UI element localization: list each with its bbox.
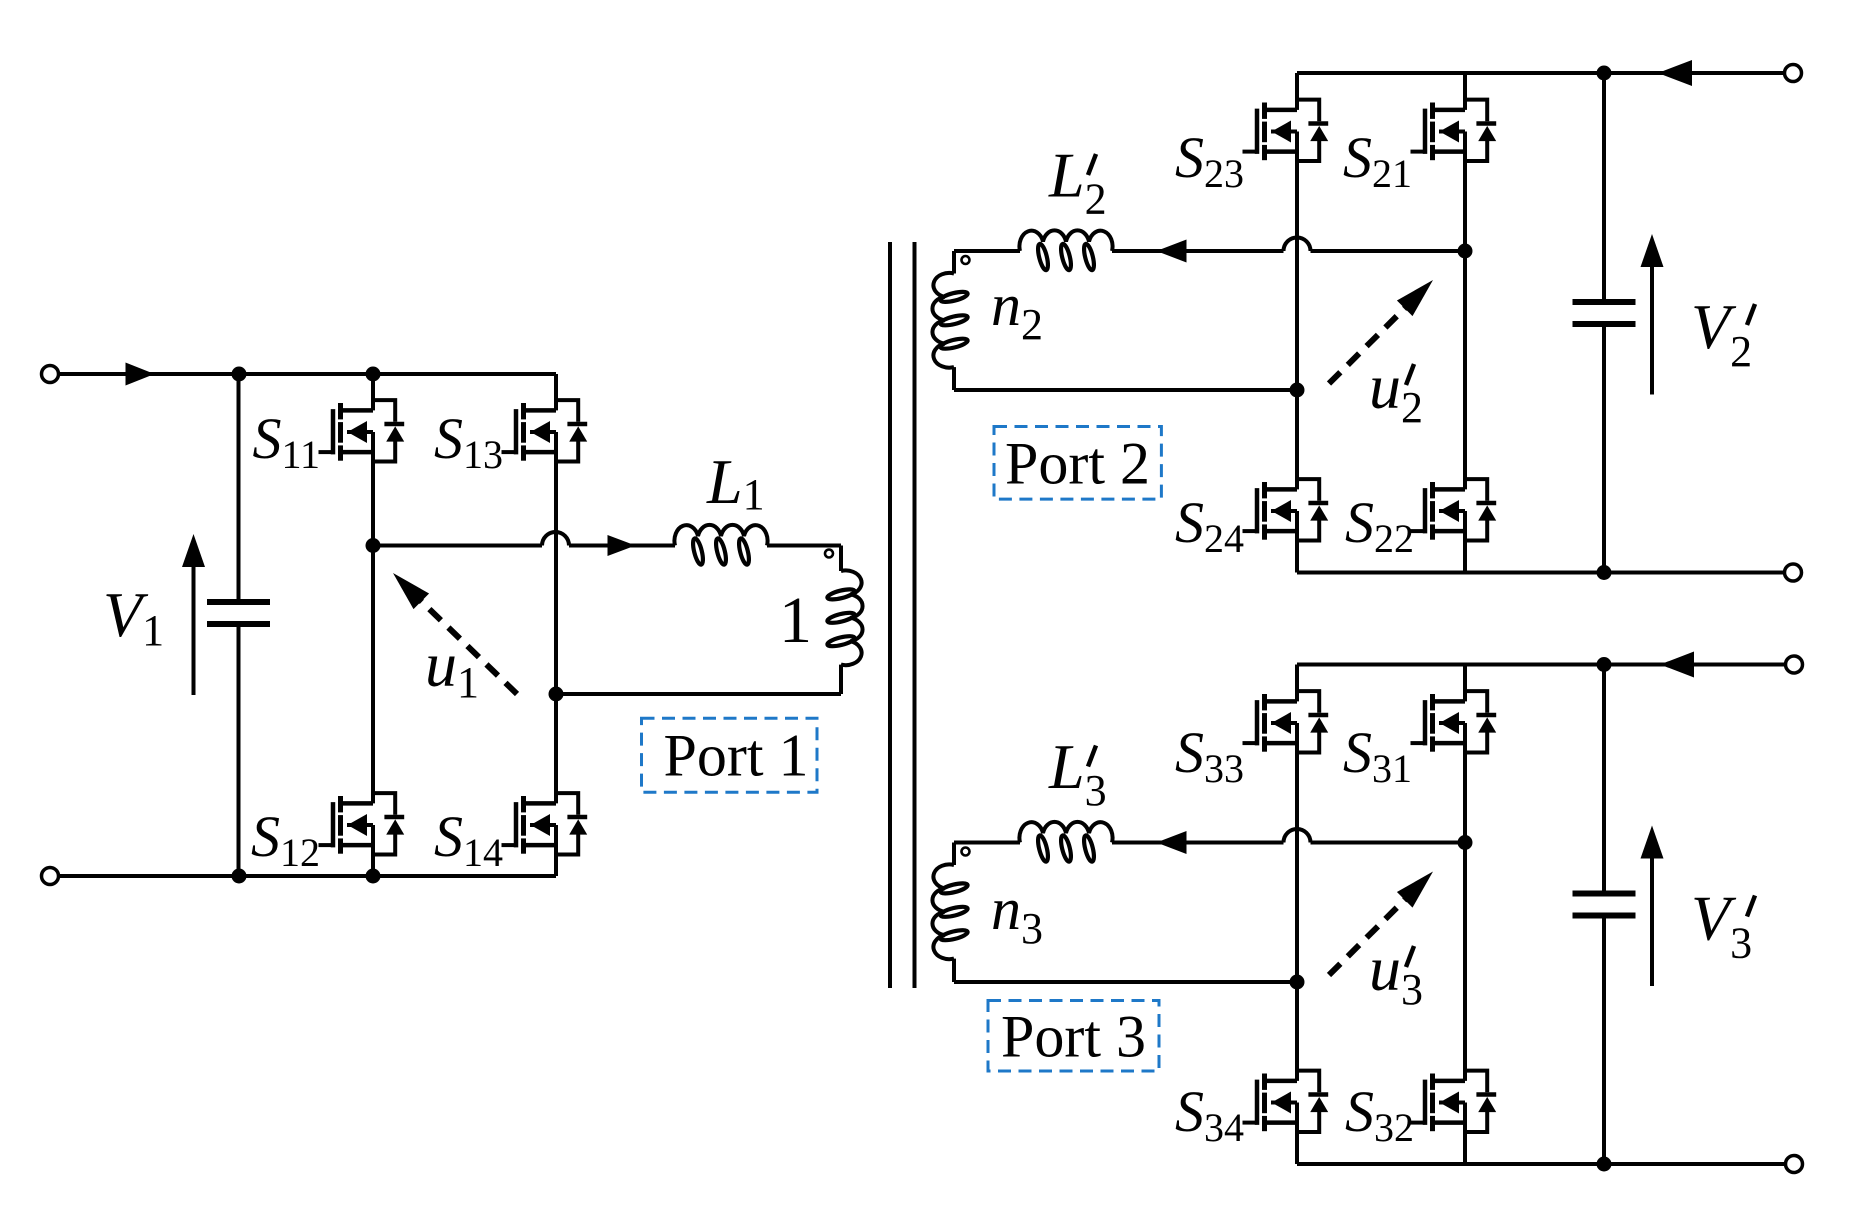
node: bottom rail / left leg junction <box>366 869 381 884</box>
label S34 <box>1175 1079 1244 1150</box>
transformer core <box>890 242 915 988</box>
inductor L2' <box>1019 230 1112 271</box>
label S24 <box>1175 490 1244 561</box>
wire: Port 2 bottom rail <box>1297 571 1785 575</box>
node: top rail / C3 junction <box>1597 657 1612 672</box>
wire: n2 bottom lead to bridge left leg <box>954 388 1297 392</box>
wire: Port 1 top input <box>59 372 240 376</box>
node: top rail / capacitor junction <box>232 367 247 382</box>
capacitor C1 (input cap of Port 1) <box>207 374 270 876</box>
transistor S13 (N-MOSFET with body diode) <box>502 400 588 461</box>
wire: n2 top lead to bridge (Port 2), with hop over left leg <box>954 238 1465 252</box>
wire: L1 to transformer primary <box>767 544 841 548</box>
dashed box: Port 1 <box>642 718 818 792</box>
wire: Port 1 left bridge leg <box>371 374 375 876</box>
label S32 <box>1345 1079 1414 1150</box>
arrow: input current direction <box>126 363 155 386</box>
transistor S12 (N-MOSFET with body diode) <box>319 793 405 854</box>
inductor L1 <box>674 525 767 566</box>
label L2' <box>1048 140 1107 224</box>
transistor S21 (N-MOSFET with body diode) <box>1411 100 1497 161</box>
wire: bridge mid to L1 (with hop over right leg) <box>373 532 675 546</box>
terminal: Port 3 positive <box>1786 656 1803 673</box>
dashed box: Port 2 <box>994 427 1161 500</box>
label S14 <box>434 804 503 875</box>
arrow: V2' polarity (up) <box>1641 234 1664 395</box>
label u2' <box>1369 351 1423 432</box>
node: top rail / left leg junction <box>366 367 381 382</box>
label u1 <box>425 629 479 707</box>
transistor S34 (N-MOSFET with body diode) <box>1243 1071 1329 1132</box>
capacitor C2 (output cap of Port 2) <box>1573 73 1636 573</box>
wire: Port 1 top rail <box>239 372 556 376</box>
node: Port 3 bridge midpoint (left leg) <box>1290 975 1305 990</box>
wire: Port 1 right bridge leg <box>554 374 558 876</box>
wire: n3 top lead to bridge (Port 3), with hop over left leg <box>954 829 1465 843</box>
polarity dot: primary <box>825 550 833 558</box>
node: Port 2 bridge midpoint (right leg) <box>1458 244 1473 259</box>
transistor S22 (N-MOSFET with body diode) <box>1411 479 1497 540</box>
polarity dot: n2 <box>962 256 970 264</box>
wire: Port 3 right bridge leg <box>1463 665 1467 1165</box>
transistor S31 (N-MOSFET with body diode) <box>1411 691 1497 752</box>
arrow: Port 2 input current (top rail) <box>1658 60 1692 86</box>
svg-text:Port 1: Port 1 <box>663 723 808 789</box>
transformer secondary winding n2 <box>932 251 968 390</box>
label V1 <box>103 579 164 655</box>
node: Port 1 bridge midpoint A <box>366 538 381 553</box>
label V2' <box>1691 291 1755 376</box>
wire: Port 3 top rail <box>1297 663 1786 667</box>
label S12 <box>251 804 320 875</box>
inductor L3' <box>1019 822 1112 863</box>
wire: bridge mid B to transformer primary bottom <box>556 692 841 696</box>
node: bottom rail / capacitor junction <box>232 869 247 884</box>
transistor S23 (N-MOSFET with body diode) <box>1243 100 1329 161</box>
transistor S11 (N-MOSFET with body diode) <box>319 400 405 461</box>
arrow: Port 2 current direction <box>1157 240 1187 263</box>
wire: Port 2 right bridge leg <box>1463 73 1467 573</box>
terminal: Port 2 positive <box>1785 65 1802 82</box>
terminal: Port 2 negative <box>1785 564 1802 581</box>
label L1 <box>706 446 765 519</box>
transformer secondary winding n3 <box>932 843 968 983</box>
node: Port 1 bridge midpoint B <box>549 687 564 702</box>
label S23 <box>1175 125 1244 196</box>
dashed box: Port 3 <box>988 1001 1159 1072</box>
terminal: Port 1 positive input <box>42 366 59 383</box>
arrow: V3' polarity (up) <box>1641 826 1664 987</box>
svg-text:Port 3: Port 3 <box>1001 1004 1146 1070</box>
label L3' <box>1048 731 1107 815</box>
transistor S14 (N-MOSFET with body diode) <box>502 793 588 854</box>
arrow: Port 3 input current (top rail) <box>1660 652 1694 678</box>
polarity dot: n3 <box>962 848 970 856</box>
node: bottom rail / C2 junction <box>1597 565 1612 580</box>
svg-text:Port 2: Port 2 <box>1005 431 1150 497</box>
arrow: V1 polarity (up) <box>182 534 205 695</box>
transistor S33 (N-MOSFET with body diode) <box>1243 691 1329 752</box>
arrow: Port 3 current direction <box>1157 831 1187 854</box>
arrow: Port 1 current direction into L1 <box>608 535 636 556</box>
label S22 <box>1345 490 1414 561</box>
u1 dashed arrow (bridge output voltage) <box>393 573 517 694</box>
wire: n3 bottom lead to bridge left leg <box>954 980 1297 984</box>
transistor S24 (N-MOSFET with body diode) <box>1243 479 1329 540</box>
node: Port 3 bridge midpoint (right leg) <box>1458 835 1473 850</box>
terminal: Port 1 negative input <box>42 868 59 885</box>
transistor S32 (N-MOSFET with body diode) <box>1411 1071 1497 1132</box>
node: top rail / C2 junction <box>1597 66 1612 81</box>
label n2 <box>991 272 1043 349</box>
label S31 <box>1343 720 1412 791</box>
terminal: Port 3 negative <box>1786 1156 1803 1173</box>
wire: Port 3 bottom rail <box>1297 1162 1786 1166</box>
node: bottom rail / C3 junction <box>1597 1157 1612 1172</box>
transformer primary winding (1) <box>826 546 862 695</box>
wire: Port 1 bottom rail <box>59 874 557 878</box>
u3' dashed arrow <box>1329 872 1433 976</box>
node: Port 2 bridge midpoint (left leg) <box>1290 383 1305 398</box>
label S11 <box>252 406 320 477</box>
svg-text:1: 1 <box>779 584 812 657</box>
label u3' <box>1369 933 1423 1014</box>
label V3' <box>1691 883 1755 968</box>
u2' dashed arrow <box>1329 280 1433 384</box>
label S33 <box>1175 720 1244 791</box>
label S21 <box>1343 125 1412 196</box>
capacitor C3 (output cap of Port 3) <box>1573 665 1636 1165</box>
wire: Port 2 left bridge leg <box>1295 73 1299 573</box>
wire: Port 3 left bridge leg <box>1295 665 1299 1165</box>
label n3 <box>991 876 1043 953</box>
wire: Port 2 top rail <box>1297 71 1785 75</box>
label S13 <box>434 406 503 477</box>
